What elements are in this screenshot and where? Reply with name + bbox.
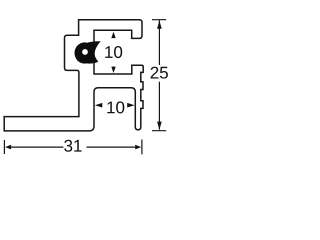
- dim vertical 10: up arrow: [111, 32, 115, 38]
- dim 31: text: [64, 140, 81, 152]
- dim slot 10: left arrow: [95, 103, 102, 108]
- dim 31: line and ticks: [4, 140, 142, 155]
- profile outline of mounting bracket cross-section: [4, 20, 143, 131]
- dim vertical 10: text: [105, 46, 122, 58]
- dim slot 10: right arrow: [127, 103, 134, 108]
- dim 25: line and ticks: [152, 20, 166, 131]
- dim 31: right arrow: [135, 145, 141, 150]
- dim 25: text: [151, 67, 168, 79]
- dim slot 10: text: [107, 101, 124, 113]
- dim 31: left arrow: [5, 145, 11, 150]
- fastener claw: [86, 41, 101, 63]
- dim 25: down arrow: [157, 122, 162, 130]
- dim 25: up arrow: [157, 20, 162, 28]
- fastener hole: [82, 49, 88, 55]
- fastener disc: [75, 42, 95, 63]
- dim vertical 10: down arrow: [111, 67, 115, 73]
